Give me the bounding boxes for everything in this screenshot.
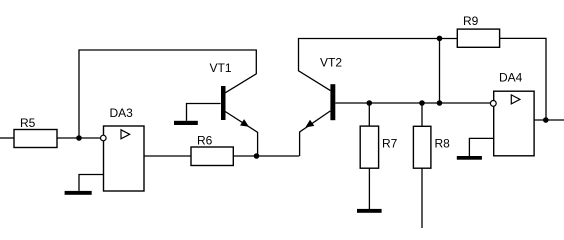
ground at DA4 (457, 156, 482, 160)
node feedback junction (437, 100, 443, 106)
VT2 emitter arrow (305, 120, 314, 128)
resistor R5 (14, 116, 57, 148)
wire VT2 emitter (300, 111, 331, 156)
transistor VT2 (320, 56, 342, 121)
resistor R9 (457, 14, 499, 47)
wire R7 top (368, 103, 370, 126)
resistor R6 (191, 133, 233, 165)
wire VT1 base (187, 104, 221, 121)
svg-text:R8: R8 (435, 136, 451, 150)
svg-text:VT1: VT1 (210, 61, 232, 75)
VT1 emitter arrow (240, 119, 249, 127)
node output junction (543, 117, 549, 123)
wire feedback to VT1 collector (79, 50, 256, 138)
svg-text:VT2: VT2 (320, 56, 342, 70)
resistor R8 (413, 126, 450, 168)
wire DA3 output (144, 155, 191, 157)
wire DA4 output (534, 119, 564, 121)
wire DA4 second input (469, 138, 493, 156)
wire R5 to DA3 input (57, 137, 101, 139)
node emitters junction (254, 153, 260, 159)
svg-text:R7: R7 (382, 137, 398, 151)
wire R9 right to DA4 output (500, 38, 546, 120)
wire R6 to emitters (233, 155, 299, 157)
transistor VT1 (210, 61, 232, 120)
node R8 junction (419, 100, 425, 106)
wire R7 bottom (368, 168, 370, 209)
wire input left (0, 137, 14, 139)
ground at VT1 base (174, 121, 198, 125)
ground at DA3 (65, 191, 92, 195)
svg-text:DA3: DA3 (110, 106, 134, 120)
wire VT2 collector to R9 (299, 39, 458, 91)
svg-text:R9: R9 (463, 14, 479, 28)
wire R8 bottom (421, 168, 423, 228)
svg-text:R6: R6 (197, 133, 213, 147)
DA4 inverting input circle (490, 101, 496, 107)
resistor R7 (360, 126, 397, 168)
wire R9 junction down to bus (439, 38, 441, 103)
svg-text:DA4: DA4 (499, 71, 523, 85)
wire VT2 base bus (335, 102, 490, 104)
node R7 junction (367, 100, 373, 106)
node R9 left junction (437, 36, 443, 42)
ground at R7 (357, 209, 382, 213)
op-amp DA3 (104, 106, 145, 191)
DA3 inverting input circle (101, 135, 107, 141)
svg-text:R5: R5 (20, 116, 36, 130)
op-amp DA4 (494, 71, 534, 156)
wire DA3 second input (79, 175, 103, 191)
wire VT1 emitter (225, 112, 257, 157)
node junction at R5/feedback (76, 135, 82, 141)
wire R8 top (421, 103, 423, 126)
